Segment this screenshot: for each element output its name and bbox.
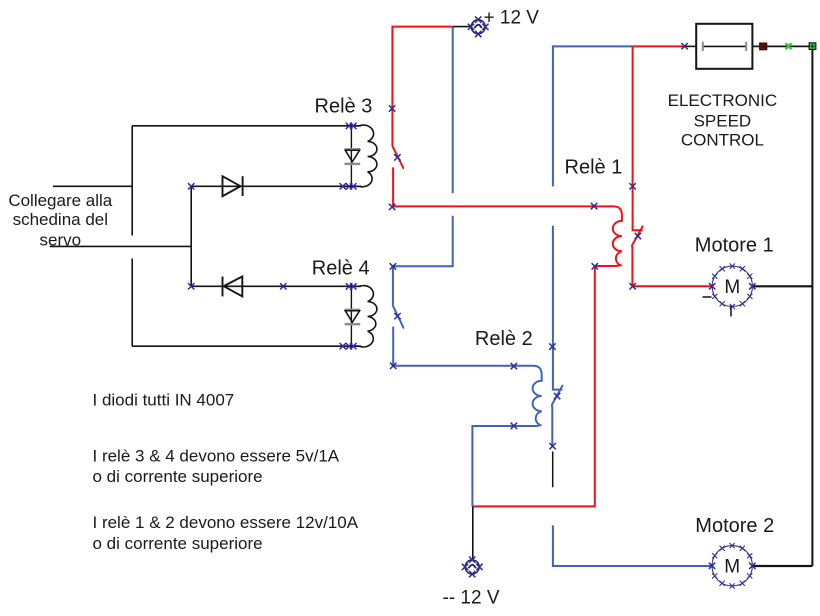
node relay2 switch bottom (549, 443, 555, 449)
label -12V (443, 587, 500, 608)
svg-text:SPEED: SPEED (694, 111, 752, 130)
node on relay4 feed wire (280, 283, 286, 289)
handle green x (786, 43, 792, 49)
ESC left wire with node (681, 43, 696, 49)
svg-text:Collegare alla: Collegare alla (8, 191, 112, 210)
wire +12V blue drop (393, 27, 453, 267)
svg-text:Relè 2: Relè 2 (475, 328, 533, 350)
node relay1 coil bottom terminal (592, 263, 598, 269)
node relay1 coil top terminal (591, 203, 597, 209)
label Relè 2 (475, 328, 533, 350)
wire diode D2 row (191, 285, 361, 287)
node relay2 coil bottom terminal (511, 423, 517, 429)
node relay3 switch corner (389, 204, 395, 210)
wire motor2 feed (blue) (553, 525, 712, 566)
label Motore 1 (695, 234, 774, 256)
node relay2 blade middle (554, 393, 560, 399)
terminal -12V (462, 557, 483, 578)
wire top rail blue (ESC to relay2 switch) (553, 46, 633, 389)
wire relay3 top feed (132, 125, 361, 127)
switch relay3 contact blade (red) (392, 146, 403, 169)
motor M1 (703, 263, 756, 316)
label Motore 2 (695, 515, 774, 537)
svg-text:Relè 3: Relè 3 (315, 96, 373, 118)
node relay R4 top terminal (346, 283, 357, 289)
relay R3 coil (351, 125, 377, 187)
node relay4 switch top corner (390, 263, 396, 269)
svg-text:o di corrente superiore: o di corrente superiore (93, 467, 263, 486)
wire ESC right (752, 45, 809, 47)
switch relay4 contact blade (blue) (393, 306, 403, 329)
relay R3 flyback diode (345, 126, 361, 187)
label +12V (484, 7, 540, 28)
node relay R3 top terminal (346, 123, 357, 129)
node relay1 switch upper (629, 183, 635, 189)
handle dark red square (760, 43, 767, 50)
wire motor2 to bus (752, 565, 812, 567)
diode D2 (223, 277, 243, 297)
note relays 1-2 text (93, 513, 359, 553)
terminal +12V (453, 16, 489, 37)
svg-text:servo: servo (40, 231, 82, 250)
node relay4 switch bottom corner (390, 363, 396, 369)
svg-text:CONTROL: CONTROL (681, 131, 764, 150)
wire relay3 switch lower (red) (393, 167, 622, 506)
node diode D2 junction (188, 283, 194, 289)
wire -12V stub (black) (472, 506, 474, 559)
wire relay1 switch upper (red) (633, 46, 643, 230)
relay R4 flyback diode (345, 286, 361, 346)
svg-text:-- 12 V: -- 12 V (443, 587, 500, 608)
svg-text:ELECTRONIC: ELECTRONIC (668, 91, 778, 110)
svg-text:M: M (724, 557, 740, 578)
wire relay4 bottom feed (132, 345, 361, 347)
node relay2 coil top terminal (511, 363, 517, 369)
svg-text:+ 12 V: + 12 V (484, 7, 540, 28)
wire left vertical bus (131, 126, 133, 346)
switch relay1 contact blade (red) (632, 226, 712, 287)
svg-text:o di corrente superiore: o di corrente superiore (93, 534, 263, 553)
svg-text:I relè 3 & 4 devono essere 5v/: I relè 3 & 4 devono essere 5v/1A (93, 447, 340, 466)
label ELECTRONIC SPEED CONTROL (668, 91, 778, 150)
node relay4 blade middle (394, 313, 400, 319)
note diodes text (93, 391, 235, 410)
wire servo input upper (53, 185, 132, 187)
svg-text:Motore 1: Motore 1 (695, 234, 774, 256)
node diode D1 anode junction (188, 183, 194, 189)
handle green square (809, 43, 816, 50)
svg-text:I diodi tutti IN 4007: I diodi tutti IN 4007 (93, 391, 235, 410)
wire diode D1 row (191, 185, 361, 187)
node relay1 switch corner (629, 283, 635, 289)
note relays 3-4 text (93, 447, 340, 486)
wire relay2 armature stub (black) (552, 452, 554, 488)
label Relè 3 (315, 96, 373, 118)
wire +12V red rail (392, 27, 452, 147)
svg-text:Motore 2: Motore 2 (695, 515, 774, 537)
switch relay2 contact blade (blue) (552, 385, 563, 446)
wire top rail red (junction to ESC) (633, 45, 685, 47)
label Relè 1 (565, 157, 623, 179)
svg-text:schedina del: schedina del (13, 210, 108, 229)
wire relay4 switch upper (blue) (392, 266, 394, 306)
wire servo line lower (50, 245, 192, 247)
ESC box U1 (696, 24, 752, 69)
svg-text:M: M (724, 277, 740, 298)
node relay2 switch upper (549, 343, 555, 349)
motor M2 (709, 543, 756, 589)
diode D1 (223, 176, 243, 196)
label Relè 4 (312, 258, 370, 280)
svg-text:Relè 4: Relè 4 (312, 258, 370, 280)
wire motor1 to bus (752, 285, 812, 287)
node relay R3 bottom terminal (340, 183, 357, 189)
label Collegare alla schedina del servo (8, 191, 112, 250)
node relay1 blade middle (635, 233, 641, 239)
node relay3 blade middle (394, 154, 400, 160)
wire relay4 switch lower to relay2 coil (blue) (393, 327, 542, 507)
wire diode column vertical (190, 186, 192, 286)
relay R4 coil (351, 286, 377, 347)
node relay3 switch upper (389, 105, 395, 111)
svg-text:I relè 1 & 2 devono essere 12v: I relè 1 & 2 devono essere 12v/10A (93, 513, 359, 532)
svg-text:Relè 1: Relè 1 (565, 157, 623, 179)
wire right bus (black) (811, 50, 813, 566)
node relay R4 bottom terminal (340, 343, 357, 349)
